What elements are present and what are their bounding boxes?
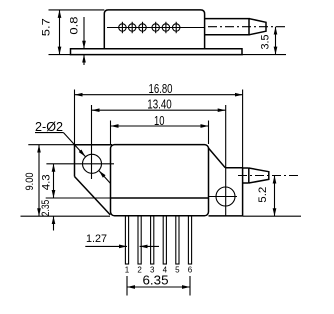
dim 5.2 line	[274, 176, 276, 217]
right hole vertical centerline / 13.40 extension	[225, 105, 227, 216]
terminal circle 2	[129, 22, 136, 33]
dim 9.00 top extension	[28, 144, 74, 146]
svg-text:9.00: 9.00	[24, 173, 36, 191]
right mounting hole	[216, 187, 235, 206]
dim 2.35 bottom arrow	[53, 216, 55, 230]
svg-text:5.2: 5.2	[257, 187, 269, 203]
terminal circle 6	[173, 22, 180, 33]
pin 3	[151, 216, 154, 264]
leader arrow from below	[99, 171, 110, 184]
svg-text:1.27: 1.27	[86, 233, 107, 245]
leader underline	[35, 132, 64, 134]
dim 1.27 right arrow	[140, 245, 159, 247]
left hole horizontal centerline	[46, 163, 114, 165]
terminal circle 4	[152, 22, 159, 33]
right hole horizontal centerline	[208, 196, 237, 198]
dim 3.5 line	[275, 27, 277, 55]
flange seam line across body	[111, 197, 209, 199]
pin 5	[176, 216, 179, 264]
connector cylinder (front view)	[243, 168, 249, 183]
svg-text:2-Ø2: 2-Ø2	[35, 119, 63, 134]
connector taper (front view)	[249, 168, 269, 183]
terminal circle 5	[162, 22, 169, 33]
dim 0.8 arrow top	[83, 17, 85, 49]
connector centerline (side view)	[208, 26, 286, 28]
dim 6.35 right extension	[189, 276, 191, 296]
right ear bottom / flange bottom edge	[209, 215, 243, 217]
svg-text:13.40: 13.40	[147, 96, 172, 111]
right ear top edge	[225, 167, 242, 169]
svg-text:16.80: 16.80	[149, 81, 173, 96]
dim 16.80 left extension	[74, 90, 76, 145]
leader arrow to hole	[64, 133, 86, 157]
dim 5.7 extension bottom	[49, 54, 71, 56]
left ear left edge	[74, 145, 76, 177]
pin 6	[188, 216, 191, 264]
terminal circle 1	[119, 22, 126, 33]
dim 6.35 line	[127, 286, 190, 288]
svg-text:2.35: 2.35	[40, 200, 52, 217]
pin 2	[138, 216, 141, 264]
right ear chamfer	[208, 148, 225, 168]
connector cylinder (side view)	[205, 19, 249, 35]
dim 3.5 bottom extension	[242, 54, 286, 56]
right ear right edge	[242, 168, 244, 216]
mounting flange (side view)	[71, 49, 243, 55]
left ear chamfer	[75, 177, 111, 215]
dim 16.80 line	[75, 94, 243, 96]
bottom line left extension	[21, 215, 111, 217]
body case outline	[104, 10, 204, 49]
left mounting hole	[83, 154, 102, 173]
svg-text:1: 1	[125, 265, 130, 274]
dim 16.80 right extension	[242, 90, 244, 168]
dim 6.35 left extension	[126, 276, 128, 296]
dim 4.3 line	[53, 164, 55, 198]
dim 2.35 top extension	[46, 197, 111, 199]
svg-text:5: 5	[175, 265, 180, 274]
terminal circle 3	[139, 22, 146, 33]
dim 9.00 line	[38, 145, 40, 217]
svg-text:6: 6	[188, 265, 193, 274]
svg-text:6.35: 6.35	[143, 272, 169, 287]
dim 5.7 line	[59, 10, 61, 55]
bottom line right extension	[243, 215, 301, 217]
dim 1.27 left arrow	[85, 245, 127, 247]
dim 10 right extension	[208, 121, 210, 145]
svg-text:10: 10	[154, 113, 165, 128]
left hole vertical centerline / 13.40 extension	[91, 105, 93, 179]
dim 10 left extension	[110, 121, 112, 145]
svg-text:3.5: 3.5	[260, 35, 272, 50]
main body outline	[111, 145, 209, 216]
svg-text:4.3: 4.3	[40, 174, 52, 190]
dim 5.7 extension top	[49, 9, 105, 11]
dim 10 line	[111, 125, 209, 127]
svg-text:0.8: 0.8	[69, 17, 81, 35]
pin 1	[125, 216, 128, 264]
pin 4	[163, 216, 166, 264]
dim 13.40 line	[92, 109, 226, 111]
dim 0.8 arrow bottom	[83, 55, 85, 65]
left ear top edge	[75, 144, 113, 146]
terminal centerline	[107, 27, 205, 29]
svg-text:5.7: 5.7	[40, 18, 52, 36]
connector centerline (front view)	[238, 175, 301, 177]
connector taper tip (side view)	[249, 19, 266, 35]
